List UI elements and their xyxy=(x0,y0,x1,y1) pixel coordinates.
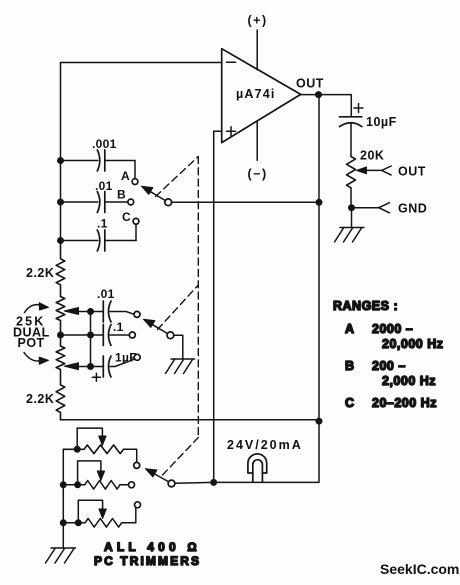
ground symbol (middle) xyxy=(166,359,195,374)
wire: cap to 20K pot xyxy=(350,123,352,157)
svg-text:POT: POT xyxy=(18,336,45,350)
wire: trimmer1 to contact1 xyxy=(124,449,137,462)
wire: trimmer3 to contact3 xyxy=(122,508,136,523)
wire: non-inverting input vertical xyxy=(214,131,222,482)
junction: bus row B xyxy=(57,199,64,206)
wire: inverting input from left bus to op-amp xyxy=(61,62,222,64)
svg-text:(+): (+) xyxy=(248,14,268,28)
svg-text:A: A xyxy=(121,169,130,183)
trimmer bus vertical xyxy=(62,449,64,548)
svg-text:RANGES :: RANGES : xyxy=(333,299,398,313)
svg-text:OUT: OUT xyxy=(398,165,426,179)
potentiometer 25K dual section 2 xyxy=(56,335,90,385)
resistor R1 2.2K upper xyxy=(26,241,65,297)
junction: bottom right xyxy=(316,418,323,425)
wire: op-amp output to 10uF branch xyxy=(301,95,352,117)
wire: feedback vertical from output node down xyxy=(318,95,320,422)
svg-text:20,000 Hz: 20,000 Hz xyxy=(382,337,443,351)
svg-text:(−): (−) xyxy=(248,167,268,181)
wire: cap .1 to contact C xyxy=(135,225,137,241)
svg-text:.01: .01 xyxy=(97,287,115,301)
RANGES table xyxy=(333,299,443,410)
svg-text:24V/20mA: 24V/20mA xyxy=(227,438,303,452)
svg-text:C: C xyxy=(122,210,131,224)
wire: bottom right corner to lamp row xyxy=(214,421,319,482)
junction: bank2 row3 xyxy=(87,363,94,370)
ground symbol (bottom left) xyxy=(46,548,76,563)
svg-text:2,000 Hz: 2,000 Hz xyxy=(382,374,436,388)
switch1 contact A xyxy=(121,169,138,185)
svg-text:OUT: OUT xyxy=(296,77,324,91)
svg-text:2.2K: 2.2K xyxy=(26,392,54,406)
label: ALL 400 ohm PC TRIMMERS xyxy=(94,540,201,568)
junction: bus to pot row xyxy=(57,332,64,339)
junction: bus row A xyxy=(57,157,64,164)
lamp 24V/20mA xyxy=(227,438,303,482)
potentiometer 25K dual section 1 xyxy=(56,297,90,336)
op-amp U1 µA741 xyxy=(222,49,301,143)
GND terminal arrow xyxy=(352,202,428,216)
dashed gang line vertical xyxy=(197,157,199,438)
junction: bus row C xyxy=(57,237,64,244)
svg-text:.01: .01 xyxy=(95,179,113,193)
switch3 contact 1 xyxy=(134,462,140,468)
svg-text:20–200 Hz: 20–200 Hz xyxy=(372,396,437,410)
wire: bottom chain horizontal xyxy=(61,419,320,421)
svg-text:2000 –: 2000 – xyxy=(372,322,413,336)
wire: pot bottom to ground node xyxy=(350,188,352,208)
trimmer R6 400 ohm xyxy=(63,500,121,527)
wire: switch2 common to ground xyxy=(174,335,183,359)
OUT label xyxy=(296,77,324,91)
junction: bus-trimmer2 xyxy=(60,481,67,488)
svg-text:SeekIC.com: SeekIC.com xyxy=(380,561,459,577)
svg-text:µA74i: µA74i xyxy=(236,87,276,101)
dashed link switch3 xyxy=(163,438,199,476)
svg-text:GND: GND xyxy=(398,202,427,216)
svg-text:ALL 400 Ω: ALL 400 Ω xyxy=(104,540,201,554)
svg-text:.001: .001 xyxy=(92,137,117,151)
junction: bank2 row2 xyxy=(87,332,94,339)
junction: output node xyxy=(315,91,322,98)
(+) supply pin xyxy=(248,14,268,70)
junction: switch1 common to feedback xyxy=(316,199,323,206)
wire: bus to bank2 row2 xyxy=(61,334,91,336)
svg-text:A: A xyxy=(345,322,355,336)
svg-text:10µF: 10µF xyxy=(366,115,397,129)
wire: switch1 common to feedback line xyxy=(171,201,319,203)
switch2 contact 2 xyxy=(129,332,135,338)
svg-text:.1: .1 xyxy=(97,217,108,231)
svg-text:200 –: 200 – xyxy=(372,359,406,373)
wire: trimmer2 to contact2 xyxy=(120,484,128,486)
capacitor .01 (bank2) xyxy=(91,287,134,322)
svg-text:.1: .1 xyxy=(113,320,124,334)
capacitor .01 xyxy=(61,179,128,213)
junction: ground node xyxy=(348,204,355,211)
OUT terminal arrow xyxy=(382,165,426,179)
junction: bank2 row1 xyxy=(87,308,94,315)
wire: cap bank2 vertical xyxy=(90,312,92,367)
trimmer R5 400 ohm xyxy=(63,461,120,489)
svg-text:C: C xyxy=(345,396,355,410)
junction: lamp row / non-inv node xyxy=(210,479,217,486)
trimmer R4 400 ohm xyxy=(63,428,123,454)
(-) supply pin xyxy=(248,121,268,181)
capacitor C4 10uF xyxy=(340,104,397,130)
switch1 contact C xyxy=(122,210,139,224)
capacitor 1uF (bank2) xyxy=(91,351,137,382)
svg-text:20K: 20K xyxy=(360,149,384,163)
wire: left bus vertical xyxy=(60,63,62,241)
switch3 wiper xyxy=(146,469,214,487)
svg-text:B: B xyxy=(345,359,355,373)
switch3 contact 2 xyxy=(129,482,135,488)
switch2 contact 1 xyxy=(134,311,140,317)
watermark SeekIC.com xyxy=(380,561,459,577)
svg-text:PC TRIMMERS: PC TRIMMERS xyxy=(94,554,201,568)
25K DUAL POT label with arrows xyxy=(13,303,50,365)
capacitor .1 (bank2) xyxy=(91,320,130,346)
dashed link switch2 xyxy=(158,285,199,330)
junction: trimmer1 wiper tie xyxy=(74,446,81,453)
potentiometer R3 20K xyxy=(347,149,385,188)
ground symbol (right) xyxy=(335,208,365,242)
junction: bus-trimmer3 xyxy=(60,519,67,526)
resistor R2 2.2K lower xyxy=(26,385,65,420)
switch2 contact 3 xyxy=(134,354,140,360)
capacitor .001 xyxy=(61,137,136,171)
switch1 wiper xyxy=(142,186,172,205)
wire: cap .001 to contact A xyxy=(134,161,136,179)
capacitor .1 xyxy=(61,217,137,252)
svg-text:2.2K: 2.2K xyxy=(26,266,54,280)
junction: trimmer3 wiper tie xyxy=(75,519,82,526)
switch2 wiper xyxy=(144,319,174,338)
dashed link switch1 xyxy=(156,157,199,197)
switch1 contact B xyxy=(117,188,134,205)
switch3 contact 3 xyxy=(135,502,141,508)
junction: trimmer2 wiper tie xyxy=(74,481,81,488)
svg-text:B: B xyxy=(117,188,126,202)
